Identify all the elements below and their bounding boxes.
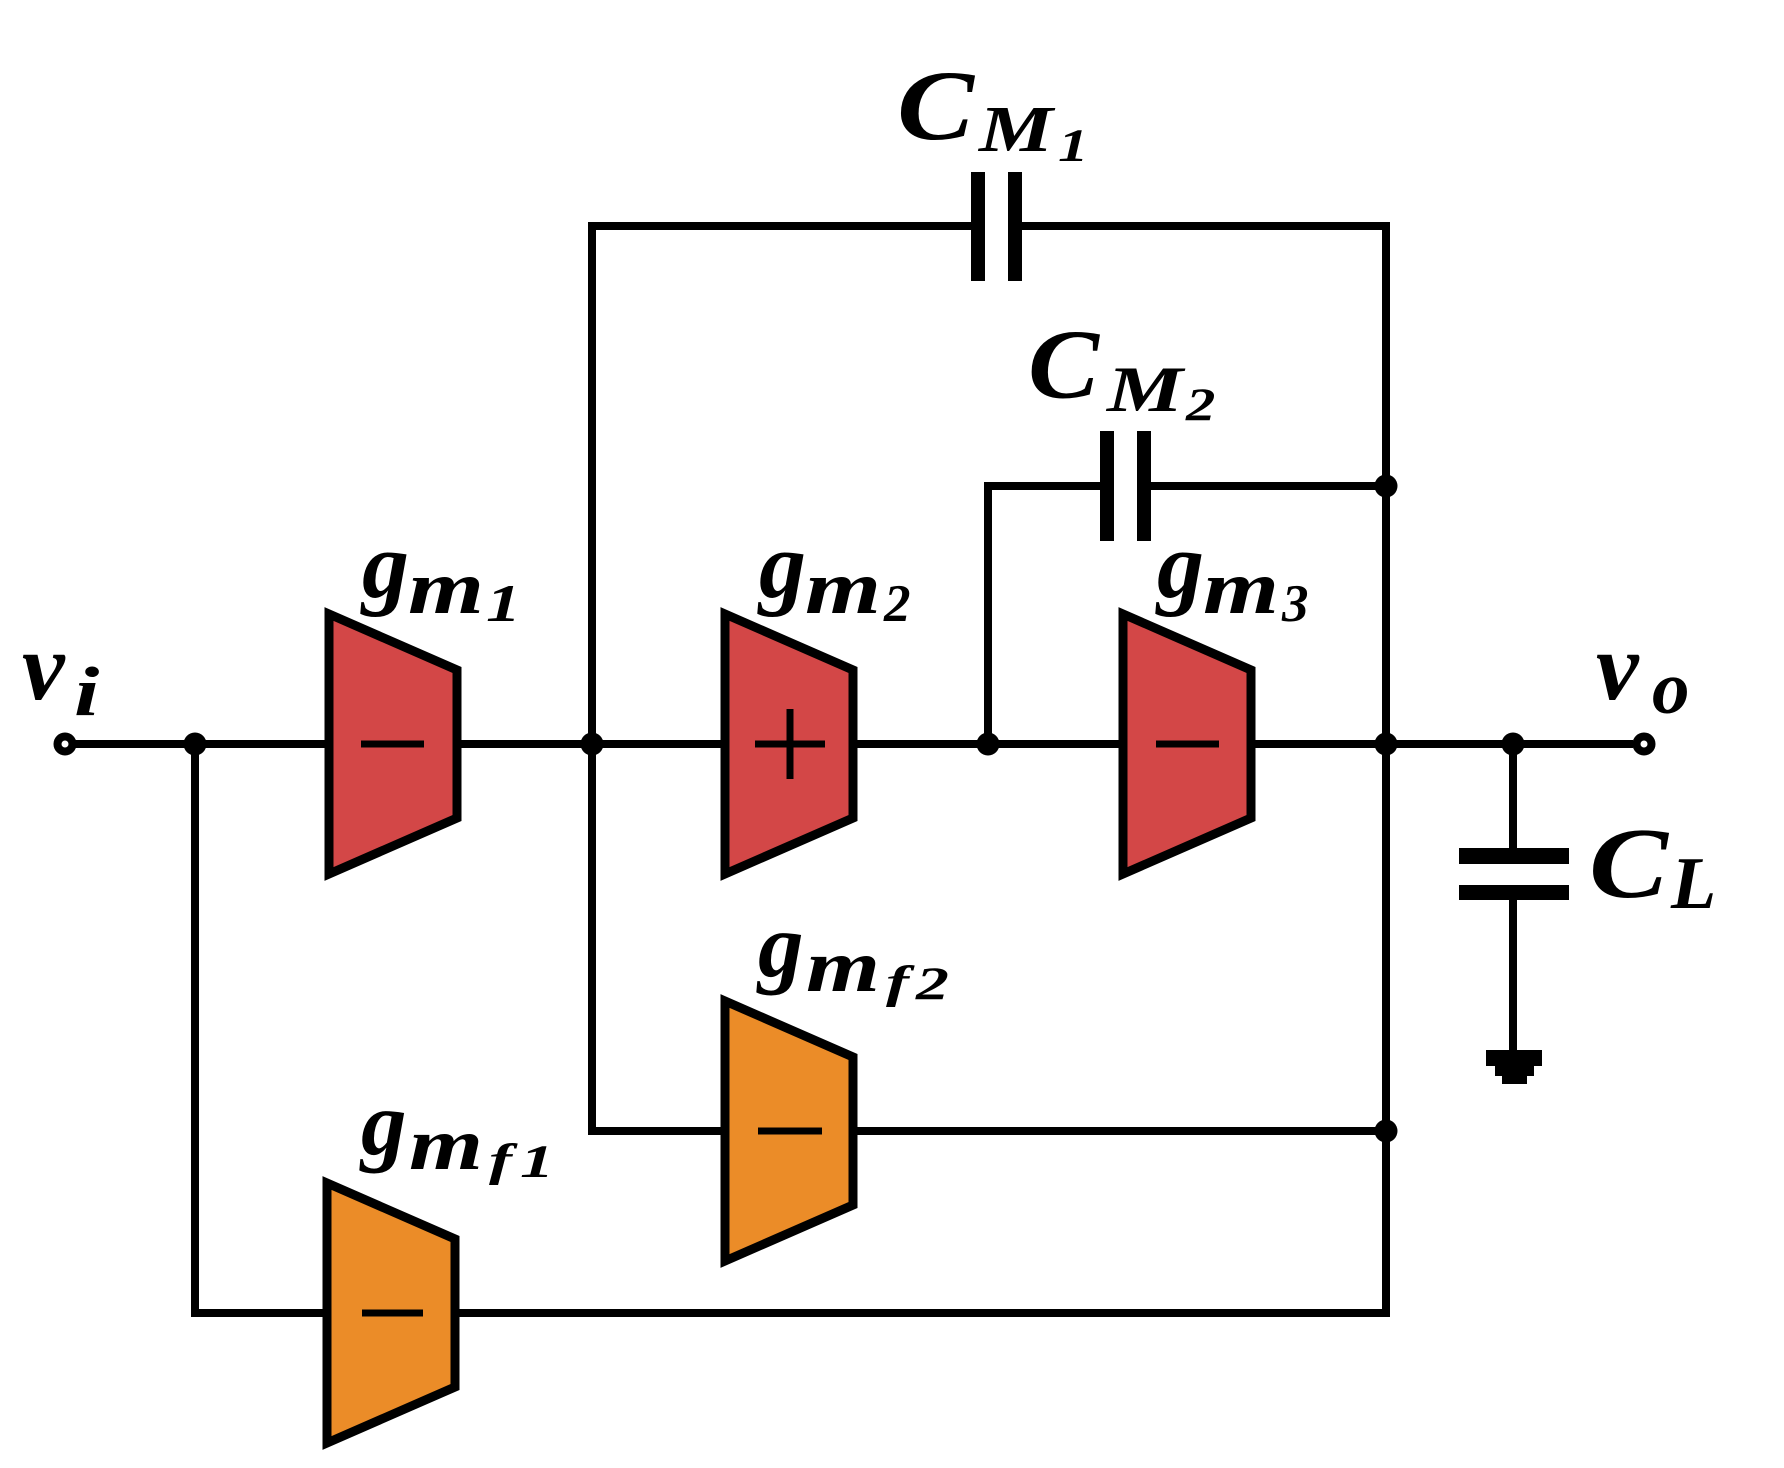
svg-text:L: L (1670, 843, 1716, 925)
svg-text:g: g (1155, 514, 1204, 618)
svg-text:g: g (756, 895, 804, 996)
svg-text:m: m (806, 926, 880, 1008)
svg-text:1: 1 (486, 575, 521, 633)
svg-text:C: C (1028, 311, 1100, 420)
svg-text:2: 2 (883, 575, 911, 633)
svg-text:m: m (1203, 546, 1279, 630)
svg-text:C: C (1589, 807, 1670, 919)
svg-text:2: 2 (915, 958, 949, 1010)
svg-text:m: m (409, 1104, 483, 1186)
svg-text:g: g (757, 514, 806, 618)
svg-text:m: m (805, 546, 881, 630)
svg-text:C: C (897, 50, 975, 161)
svg-text:2: 2 (1185, 378, 1215, 430)
svg-text:M: M (978, 93, 1056, 166)
svg-text:o: o (1652, 647, 1690, 730)
svg-text:1: 1 (520, 1135, 554, 1187)
svg-text:m: m (408, 546, 484, 630)
svg-text:v: v (1596, 613, 1640, 720)
svg-text:g: g (359, 1073, 407, 1174)
svg-text:3: 3 (1281, 575, 1309, 633)
svg-text:M: M (1106, 354, 1186, 426)
svg-text:v: v (22, 613, 66, 720)
svg-text:i: i (74, 653, 100, 731)
svg-text:g: g (360, 514, 409, 618)
svg-text:1: 1 (1058, 119, 1089, 172)
